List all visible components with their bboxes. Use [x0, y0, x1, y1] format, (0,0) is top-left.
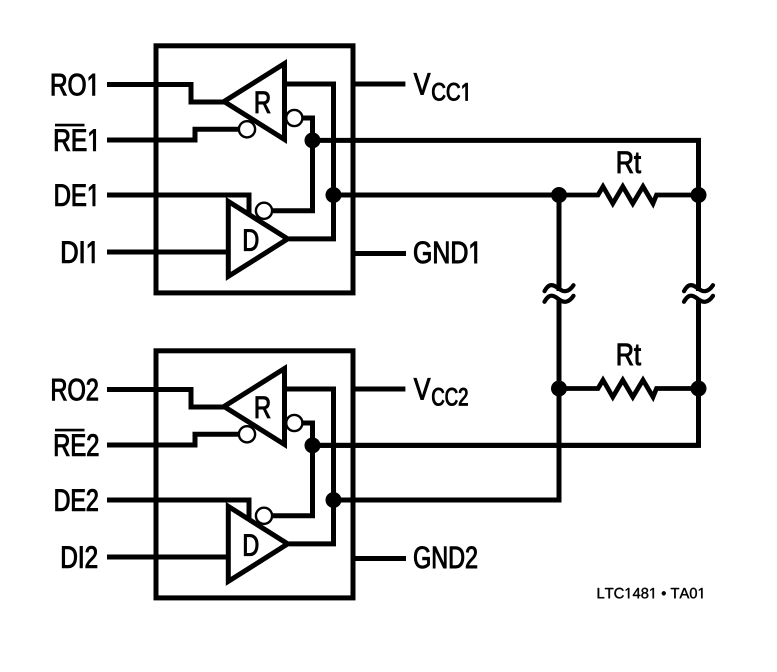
break symbol right bus	[684, 285, 713, 302]
label VCC2	[414, 378, 468, 405]
overline RE2	[55, 429, 85, 432]
junction dot node B IC2	[326, 492, 342, 508]
wire DE1 to driver enable	[107, 195, 249, 217]
wire node B to right	[334, 193, 560, 198]
junction dot node B IC1	[326, 187, 342, 203]
label RE1	[55, 130, 95, 151]
label VCC1	[414, 73, 468, 100]
junction dot node A IC1	[305, 132, 321, 148]
wire receiver R1 input A	[285, 84, 334, 239]
left bus upper segment	[557, 195, 562, 291]
wire receiver R2 input A	[285, 389, 334, 544]
resistor Rt upper	[559, 187, 699, 204]
wire RO2 input jog	[107, 390, 226, 408]
wire RO1 input jog	[107, 85, 226, 103]
wire node A to right	[313, 443, 699, 448]
receiver R2	[224, 369, 285, 445]
label DE2	[56, 489, 98, 511]
label GND1	[414, 241, 477, 263]
wire node A to right bus	[313, 140, 699, 291]
wire DE2 to driver enable	[107, 500, 249, 522]
driver letter D	[244, 229, 258, 250]
VCC2 stub	[353, 387, 405, 392]
label RO2	[52, 379, 97, 401]
junction dot Rt2 left	[551, 381, 567, 397]
label DI1	[62, 242, 94, 263]
GND2 stub	[353, 556, 406, 561]
junction dot Rt1 left	[551, 187, 567, 203]
break symbol left bus	[545, 285, 574, 302]
left bus lower segment to IC2 node B	[334, 300, 560, 500]
bubble R1 enable	[239, 121, 255, 137]
label Rt upper	[618, 152, 641, 174]
driver D1	[228, 201, 287, 276]
label DE1	[56, 185, 95, 206]
wire RE1 to enable bubble	[107, 129, 242, 140]
label RE2	[55, 434, 98, 456]
wire RE2 to enable bubble	[107, 434, 242, 445]
resistor Rt lower	[559, 380, 699, 397]
receiver letter R	[256, 92, 270, 113]
VCC1 stub	[353, 82, 405, 87]
wire receiver R2 bubble to driver bubble	[273, 423, 313, 516]
wire DI1 to driver input	[107, 250, 231, 255]
wire DI2 to driver input	[107, 555, 231, 560]
caption LTC1481 TA01	[598, 588, 703, 599]
bubble R2 inverting input	[286, 415, 302, 431]
IC2 box	[156, 351, 353, 598]
bubble R1 inverting input	[286, 110, 302, 126]
driver letter D	[244, 534, 258, 555]
label GND2	[414, 546, 477, 568]
bubble R2 enable	[239, 426, 255, 442]
label RO1	[52, 74, 95, 96]
junction dot Rt2 right	[691, 381, 707, 397]
bubble D2 inverting output	[256, 508, 272, 524]
label DI2	[62, 546, 97, 568]
junction dot node A IC2	[305, 437, 321, 453]
receiver R1	[224, 64, 285, 140]
driver D2	[228, 506, 287, 581]
right bus lower segment to IC2 node A	[313, 300, 699, 445]
GND1 stub	[353, 251, 406, 256]
receiver letter R	[256, 397, 270, 418]
bubble D1 inverting output	[256, 203, 272, 219]
overline RE1	[55, 124, 85, 127]
junction dot Rt1 right	[691, 187, 707, 203]
label Rt lower	[618, 344, 641, 366]
wire receiver R1 bubble to driver bubble	[273, 118, 313, 211]
IC1 box	[156, 46, 353, 293]
wire node B to right	[334, 498, 560, 503]
